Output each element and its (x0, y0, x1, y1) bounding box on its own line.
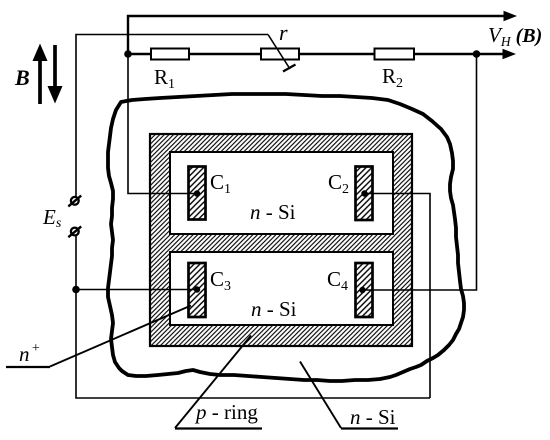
svg-text:VH (B): VH (B) (488, 23, 542, 49)
Es source terminal bottom (68, 226, 81, 237)
n-Si island top (170, 152, 393, 234)
svg-text:n - Si: n - Si (250, 200, 296, 224)
svg-text:n - Si: n - Si (251, 297, 297, 321)
junction node at R1 left (124, 50, 132, 58)
svg-text:r: r (279, 20, 288, 45)
contact dot C3 (194, 286, 200, 292)
contact C1 (189, 167, 206, 220)
wire: top output line to VH arrow (128, 16, 504, 54)
arrowhead bottom VH (503, 49, 517, 59)
label n-Si substrate with underline and pointer (300, 362, 398, 430)
wire: Es bottom down and along bottom (76, 235, 430, 398)
svg-text:n - Si: n - Si (350, 405, 396, 429)
rheostat wiper diagonal (268, 35, 290, 70)
Es source terminal top (68, 196, 81, 207)
arrowhead top VH (504, 11, 518, 21)
wire: right junction to C4 (363, 54, 477, 290)
wire: main chain segment junction to R1 (128, 53, 151, 56)
wire: Es top to rheostat wiper (76, 35, 268, 198)
wire: junction to C3 (76, 289, 197, 291)
wire: rheostat to R2 (299, 53, 375, 56)
p-ring (hatched frame) (150, 134, 412, 346)
rheostat r body (261, 49, 299, 60)
wire: junction to C1 (128, 54, 197, 194)
n-Si island bottom (170, 252, 393, 325)
contact dot C2 (361, 190, 367, 196)
contact dot C1 (194, 190, 200, 196)
wire: R2 to VH arrow (414, 53, 503, 56)
wire: C2 to bottom right loop (365, 194, 431, 399)
contact dot C4 (359, 287, 365, 293)
svg-text:p - ring: p - ring (194, 400, 258, 424)
junction node at Es bottom (72, 286, 80, 294)
rheostat wiper tick (283, 65, 296, 72)
crystal outline (blob) (108, 94, 464, 381)
B field arrow down (48, 45, 63, 104)
junction node at R2 right (473, 50, 481, 58)
resistor R1 (151, 49, 189, 60)
label p-ring with underline and pointer (175, 336, 262, 429)
contact C3 (189, 263, 206, 317)
B field arrow up (33, 44, 48, 105)
contact C4 (356, 263, 373, 317)
resistor R2 (375, 49, 415, 60)
label n+ with underline and pointer (6, 306, 191, 368)
wire: R1 to rheostat (189, 53, 261, 56)
contact C2 (356, 167, 373, 221)
svg-text:B: B (14, 65, 30, 90)
